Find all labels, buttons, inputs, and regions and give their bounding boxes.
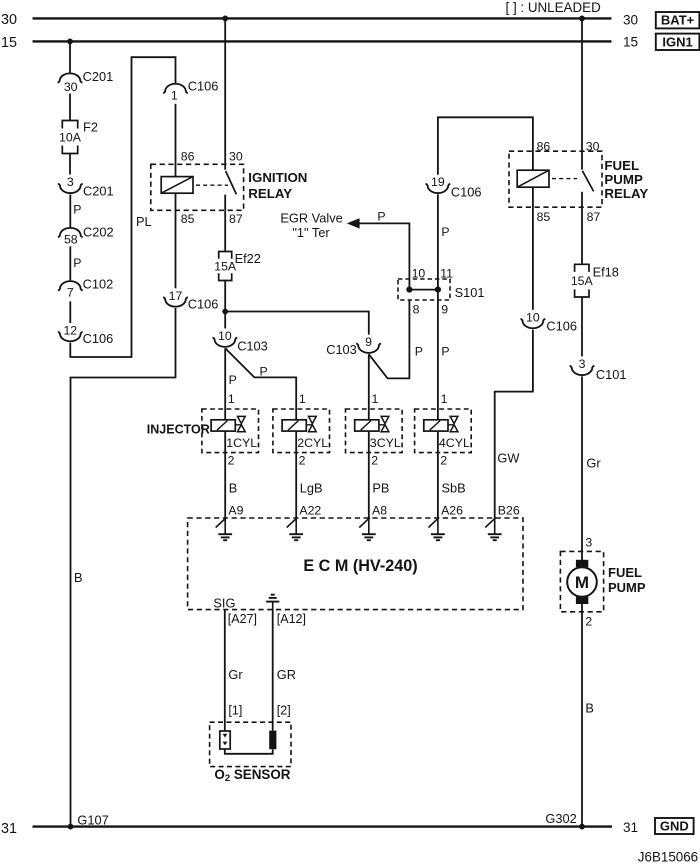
- injector 4CYL coil: [424, 420, 448, 431]
- svg-text:PL: PL: [136, 214, 152, 229]
- svg-text:P: P: [377, 210, 385, 224]
- wire relay87 to fuse Ef18: [581, 207, 583, 264]
- svg-text:1: 1: [441, 392, 448, 406]
- svg-text:Ef18: Ef18: [593, 265, 619, 280]
- fuel pump relay coil-switch link: [552, 178, 577, 180]
- svg-text:15A: 15A: [571, 274, 594, 288]
- wire C201-30 to fuse F2: [69, 94, 71, 121]
- wire bus30 to fuel pump relay switch: [581, 18, 583, 169]
- svg-text:3: 3: [67, 175, 74, 189]
- svg-text:C106: C106: [188, 79, 219, 94]
- S101 pin 10 stub: [408, 279, 410, 290]
- svg-text:31: 31: [1, 821, 17, 837]
- svg-text:M: M: [575, 573, 589, 592]
- ignition relay coil: [161, 177, 193, 194]
- label Gr wire: [228, 667, 243, 682]
- injector 3CYL box: [346, 409, 403, 453]
- svg-text:P: P: [73, 203, 81, 217]
- label P wire: [441, 225, 449, 239]
- label PB wire: [372, 480, 389, 495]
- label B wire: [585, 700, 594, 715]
- svg-text:C106: C106: [83, 331, 114, 346]
- wire relay85 to C106 pin10: [532, 187, 534, 310]
- injector 1CYL box: [202, 409, 259, 453]
- note [ ]: UNLEADED: [506, 0, 602, 15]
- connector C106 pin 17: [163, 289, 218, 312]
- svg-text:9: 9: [441, 303, 448, 317]
- label Gr wire: [586, 455, 601, 470]
- svg-text:C101: C101: [596, 367, 627, 382]
- wire 1CYL to ECM A9 (B): [224, 431, 226, 518]
- label pin A26: [441, 503, 463, 517]
- O2 sensor box: [210, 722, 291, 766]
- label pin 8: [413, 303, 420, 317]
- label SbB wire: [442, 480, 466, 495]
- svg-text:C103: C103: [326, 342, 357, 357]
- svg-text:IGNITION: IGNITION: [248, 170, 307, 185]
- label FUEL PUMP: [608, 565, 646, 595]
- svg-text:7: 7: [67, 285, 74, 299]
- ignition relay box: [151, 164, 244, 210]
- connector C102 pin 7: [58, 277, 113, 300]
- svg-text:2: 2: [299, 454, 306, 468]
- wire Ef22 to node: [224, 281, 226, 312]
- label P wire: [229, 373, 237, 387]
- svg-text:3: 3: [585, 536, 592, 550]
- label pin 10: [412, 266, 426, 280]
- svg-text:2: 2: [440, 454, 447, 468]
- svg-text:SIG: SIG: [213, 595, 235, 610]
- label pin B26: [498, 503, 520, 517]
- fuse Ef22 15A: [214, 251, 261, 281]
- wire S101-11 to C106 pin19 (P): [437, 194, 439, 279]
- svg-text:G107: G107: [77, 813, 108, 828]
- label [A12]: [277, 612, 306, 626]
- label GW wire: [497, 450, 520, 465]
- svg-text:SbB: SbB: [442, 480, 466, 495]
- svg-text:1: 1: [171, 89, 178, 103]
- svg-text:GR: GR: [277, 667, 296, 682]
- wire bus30 to ignition relay switch: [224, 18, 226, 169]
- svg-text:15: 15: [623, 34, 638, 49]
- label pin 1 4CYL: [441, 392, 448, 406]
- node on bus 15 at x70: [67, 39, 73, 45]
- svg-text:58: 58: [64, 233, 78, 247]
- injector 1CYL valve: [235, 416, 245, 431]
- O2 sensor element: [220, 731, 230, 749]
- connector C201 pin 3: [58, 175, 114, 199]
- svg-text:GW: GW: [497, 450, 520, 465]
- wire bus15 to C201 pin30: [69, 41, 71, 72]
- label G302: [545, 811, 576, 826]
- svg-text:[A12]: [A12]: [277, 612, 306, 626]
- svg-text:1CYL: 1CYL: [226, 436, 257, 450]
- wire bus 15 (IGN1 rail): [33, 40, 612, 42]
- svg-text:C201: C201: [83, 69, 114, 84]
- svg-text:11: 11: [440, 266, 453, 280]
- splice S101 box: [398, 279, 450, 300]
- fuse F2 10A: [59, 120, 98, 154]
- svg-text:B: B: [74, 570, 83, 585]
- svg-text:15A: 15A: [214, 259, 237, 273]
- fuse Ef18 15A: [571, 264, 619, 297]
- svg-text:31: 31: [623, 820, 638, 835]
- wire node to C103 pin10: [224, 312, 226, 329]
- ignition relay pin 87 stub: [224, 195, 226, 211]
- svg-text:3CYL: 3CYL: [370, 436, 401, 450]
- label P wire: [260, 365, 268, 379]
- label pin 3: [585, 536, 592, 550]
- fuel pump motor: [567, 567, 597, 597]
- wire C106-19 up-over to relay coil 86: [438, 117, 533, 174]
- label P wire: [377, 210, 385, 224]
- svg-text:PB: PB: [372, 480, 389, 495]
- wire C101-3 to fuel pump (Gr): [581, 376, 583, 560]
- wire C201-3 to C202 (P): [69, 194, 71, 227]
- label 1CYL: [226, 436, 257, 450]
- S101 pin 11 stub: [437, 279, 439, 290]
- label INJECTOR: [147, 422, 210, 436]
- svg-text:Ef22: Ef22: [235, 251, 261, 266]
- svg-text:C201: C201: [83, 184, 114, 199]
- ECM internal ground A9: [216, 517, 232, 540]
- svg-text:1: 1: [228, 392, 235, 406]
- IGN1 terminal box: [656, 34, 700, 50]
- svg-text:BAT+: BAT+: [661, 13, 695, 28]
- wire bus 31 (GND rail): [33, 825, 613, 827]
- svg-text:87: 87: [587, 210, 601, 224]
- injector 4CYL box: [415, 409, 472, 453]
- connector C106 pin 19: [426, 175, 482, 199]
- injector 2CYL coil: [282, 420, 306, 431]
- svg-text:C202: C202: [83, 224, 114, 239]
- label 31 right: [623, 820, 638, 835]
- svg-text:EGR Valve: EGR Valve: [280, 210, 342, 225]
- connector C202 pin 58: [58, 224, 114, 246]
- svg-text:A26: A26: [441, 503, 463, 517]
- label 4CYL: [439, 436, 470, 450]
- connector C106 pin 12: [58, 323, 113, 345]
- label pin 2 2CYL: [299, 454, 306, 468]
- label B wire: [229, 480, 238, 495]
- injector 3CYL coil: [355, 420, 379, 431]
- label 3CYL: [370, 436, 401, 450]
- label pin 1 3CYL: [372, 392, 379, 406]
- connector C103 pin 9: [326, 335, 381, 357]
- wire 2CYL to ECM A22 (LgB): [295, 431, 297, 518]
- wire fuel pump to G302 (B): [581, 604, 583, 827]
- svg-text:[A27]: [A27]: [228, 612, 257, 626]
- svg-text:30: 30: [623, 12, 639, 27]
- label ECM (HV-240): [303, 557, 417, 575]
- svg-text:30: 30: [1, 12, 17, 28]
- svg-text:9: 9: [365, 335, 372, 349]
- ECM internal ground A8: [359, 517, 375, 540]
- injector 4CYL valve: [448, 416, 458, 431]
- svg-text:30: 30: [229, 149, 243, 163]
- wire C106-10 to ECM B26 (GW): [495, 330, 533, 518]
- svg-text:2: 2: [585, 615, 592, 629]
- svg-text:B: B: [229, 480, 238, 495]
- GND terminal box: [655, 818, 694, 834]
- label P wire: [73, 256, 81, 270]
- label IGNITION RELAY: [248, 170, 307, 201]
- label S101: [455, 285, 485, 300]
- label pin 87: [587, 210, 601, 224]
- wire bus 30 (BAT+ rail): [33, 17, 612, 19]
- wire C106-1 to relay coil 86: [175, 104, 177, 177]
- ECM box: [188, 518, 523, 610]
- svg-text:IGN1: IGN1: [662, 34, 692, 49]
- label O2 SENSOR: [214, 767, 290, 784]
- svg-text:P: P: [441, 344, 449, 358]
- svg-text:85: 85: [537, 210, 551, 224]
- svg-text:2: 2: [371, 454, 378, 468]
- wire C106-17 down-left to G107: [71, 308, 176, 827]
- wire S101-9 to injector4 (P): [437, 300, 439, 420]
- svg-text:C106: C106: [451, 185, 482, 200]
- node after Ef22: [222, 309, 228, 315]
- label pin A8: [372, 503, 387, 517]
- svg-text:O2 SENSOR: O2 SENSOR: [214, 767, 290, 784]
- label GR wire: [277, 667, 296, 682]
- label pin 2 1CYL: [228, 454, 235, 468]
- injector 2CYL valve: [306, 416, 316, 431]
- label LgB wire: [300, 480, 323, 495]
- wire C103-9 to injector3 (P): [368, 354, 370, 420]
- ECM internal ground A12 (inverted): [266, 595, 279, 610]
- label pin A22: [299, 503, 321, 517]
- node on bus 30 at x225: [222, 16, 228, 22]
- svg-text:12: 12: [63, 323, 77, 337]
- svg-text:RELAY: RELAY: [604, 186, 648, 201]
- wire F2 to C201 pin3: [69, 154, 71, 175]
- wire C103-9 to S101 pin8: [369, 300, 410, 378]
- label 15 left: [1, 35, 17, 51]
- ignition relay coil-switch link: [196, 184, 228, 186]
- fuel pump relay box: [509, 151, 602, 207]
- label 2CYL: [297, 436, 328, 450]
- fuel pump brush top: [576, 560, 588, 567]
- svg-text:LgB: LgB: [300, 480, 323, 495]
- svg-text:P: P: [73, 256, 81, 270]
- fuel pump brush bottom: [576, 597, 588, 604]
- wire C202 to C102 (P): [69, 246, 71, 280]
- svg-text:[2]: [2]: [277, 703, 291, 717]
- svg-text:B26: B26: [498, 503, 520, 517]
- svg-text:Gr: Gr: [228, 667, 243, 682]
- label 30 right: [623, 12, 639, 27]
- svg-text:3: 3: [579, 357, 586, 371]
- label 15 right: [623, 34, 638, 49]
- wire C103-10 to injector1 (P): [224, 348, 226, 420]
- EGR arrow head: [347, 218, 360, 228]
- label pin 30: [229, 149, 243, 163]
- label EGR Valve: [280, 210, 342, 239]
- svg-text:B: B: [585, 700, 594, 715]
- svg-text:15: 15: [1, 35, 17, 51]
- wire 4CYL to ECM A26 (SbB): [437, 431, 439, 518]
- svg-text:C106: C106: [188, 297, 219, 312]
- svg-text:F2: F2: [83, 120, 98, 135]
- O2 sensor heater element: [269, 731, 276, 750]
- svg-text:E C M (HV-240): E C M (HV-240): [303, 557, 417, 575]
- svg-text:4CYL: 4CYL: [439, 436, 470, 450]
- label pin 2 3CYL: [371, 454, 378, 468]
- svg-text:P: P: [229, 373, 237, 387]
- wire Ef18 to C101 pin3: [581, 297, 583, 356]
- svg-text:Gr: Gr: [586, 455, 601, 470]
- label P wire: [73, 203, 81, 217]
- label pin 85: [537, 210, 551, 224]
- ground node G302: [579, 824, 585, 830]
- svg-text:19: 19: [431, 175, 445, 189]
- ground node G107: [68, 824, 74, 830]
- injector 3CYL valve: [379, 416, 389, 431]
- ignition relay switch blade: [226, 171, 237, 194]
- svg-text:86: 86: [181, 149, 195, 163]
- svg-text:A9: A9: [228, 503, 243, 517]
- wire relay87 to fuse Ef22: [224, 210, 226, 251]
- label 31 left: [1, 821, 17, 837]
- ECM internal ground A22: [287, 517, 303, 540]
- label SIG: [213, 595, 235, 610]
- svg-text:10: 10: [526, 310, 540, 324]
- svg-text:C102: C102: [83, 277, 114, 292]
- ECM internal ground A26: [428, 517, 444, 540]
- fuel pump relay switch blade: [582, 171, 593, 192]
- label pin 2: [585, 615, 592, 629]
- wire C106-12 up-over to C106 pin1: [70, 57, 175, 357]
- fuel pump box: [560, 551, 603, 611]
- injector 1CYL coil: [211, 420, 235, 431]
- svg-text:1: 1: [299, 392, 306, 406]
- connector C101 pin 3: [570, 357, 627, 382]
- svg-text:C103: C103: [237, 338, 268, 353]
- fuel pump relay coil: [517, 170, 549, 187]
- connector C106 pin 10: [521, 310, 577, 333]
- label pin 9: [441, 303, 448, 317]
- label [A27]: [228, 612, 257, 626]
- connector C106 pin 1: [163, 79, 218, 103]
- svg-text:GND: GND: [660, 819, 689, 834]
- splice S101 internal link: [406, 287, 441, 293]
- svg-text:P: P: [260, 365, 268, 379]
- injector 2CYL box: [273, 409, 330, 453]
- svg-text:87: 87: [229, 212, 243, 226]
- svg-text:PUMP: PUMP: [608, 580, 646, 595]
- svg-text:10A: 10A: [59, 130, 82, 144]
- label P wire: [415, 344, 423, 358]
- wire C102 to C106 pin12: [69, 301, 71, 323]
- label pin 30: [586, 140, 600, 154]
- label pin 2 4CYL: [440, 454, 447, 468]
- svg-text:8: 8: [413, 303, 420, 317]
- label pin 85: [181, 212, 195, 226]
- svg-text:J6B15066: J6B15066: [638, 849, 698, 864]
- svg-text:A22: A22: [299, 503, 321, 517]
- label pin 86: [537, 140, 551, 154]
- svg-text:1: 1: [372, 392, 379, 406]
- svg-text:10: 10: [412, 266, 426, 280]
- svg-text:S101: S101: [455, 285, 485, 300]
- wire C103-10 to injector2 (P): [225, 348, 296, 420]
- svg-text:FUEL: FUEL: [608, 565, 642, 580]
- svg-text:INJECTOR: INJECTOR: [147, 422, 210, 436]
- svg-text:2CYL: 2CYL: [297, 436, 328, 450]
- svg-text:2: 2: [228, 454, 235, 468]
- wire 3CYL to ECM A8 (PB): [368, 431, 370, 518]
- label [1]: [228, 703, 242, 717]
- label pin 86: [181, 149, 195, 163]
- svg-text:A8: A8: [372, 503, 387, 517]
- label FUEL PUMP RELAY: [604, 158, 648, 201]
- connector C201 pin 30: [58, 69, 114, 94]
- svg-text:RELAY: RELAY: [248, 186, 292, 201]
- label pin 87: [229, 212, 243, 226]
- label J6B15066: [638, 849, 698, 864]
- svg-text:P: P: [441, 225, 449, 239]
- ECM internal ground B26: [485, 517, 501, 540]
- wire S101-10 to EGR valve: [358, 223, 409, 279]
- label pin A9: [228, 503, 243, 517]
- label pin 1 1CYL: [228, 392, 235, 406]
- node on bus 30 at x582: [579, 16, 585, 22]
- label B wire: [74, 570, 83, 585]
- svg-text:FUEL: FUEL: [604, 158, 639, 173]
- svg-text:85: 85: [181, 212, 195, 226]
- connector C103 pin 10: [213, 329, 268, 353]
- svg-text:PUMP: PUMP: [604, 172, 643, 187]
- svg-text:[ ] : UNLEADED: [ ] : UNLEADED: [506, 0, 602, 15]
- label P wire: [441, 344, 449, 358]
- label pin 1 2CYL: [299, 392, 306, 406]
- wire relay85 to C106 pin17 (PL): [175, 193, 177, 288]
- wire ECM A27 to O2 sensor 1 (Gr): [224, 610, 226, 732]
- svg-text:C106: C106: [546, 319, 577, 334]
- svg-text:"1" Ter: "1" Ter: [292, 225, 330, 240]
- svg-text:[1]: [1]: [228, 703, 242, 717]
- svg-text:P: P: [415, 344, 423, 358]
- svg-text:30: 30: [64, 80, 78, 94]
- svg-text:17: 17: [169, 289, 183, 303]
- wire O2 sensor internal: [225, 749, 273, 754]
- S101 pin 9 stub: [437, 290, 439, 300]
- label PL wire: [136, 214, 152, 229]
- label pin 11: [440, 266, 453, 280]
- svg-text:10: 10: [218, 329, 232, 343]
- wire ECM A12 to O2 sensor 2 (GR): [272, 610, 274, 731]
- label G107: [77, 813, 108, 828]
- fuel pump relay pin 87 stub: [581, 192, 583, 207]
- svg-text:G302: G302: [545, 811, 576, 826]
- label [2]: [277, 703, 291, 717]
- label 30 left: [1, 12, 17, 28]
- wire node to C103 pin9 branch: [225, 312, 369, 335]
- BAT+ terminal box: [656, 12, 700, 28]
